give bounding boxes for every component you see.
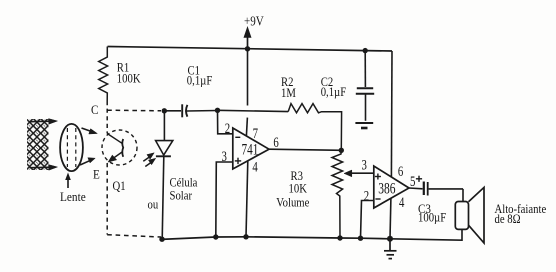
junction dot ground node on rail	[387, 236, 393, 242]
svg-text:ou: ou	[148, 199, 159, 212]
svg-text:1M: 1M	[281, 88, 296, 101]
svg-text:5: 5	[410, 173, 415, 189]
wire U1 pin7 to +9V (with crossing gap)	[247, 49, 249, 106]
wire U2 output pin5	[409, 187, 423, 190]
svg-text:2: 2	[225, 120, 230, 136]
svg-text:2: 2	[364, 188, 369, 204]
junction dot solar cell on rail	[159, 237, 164, 242]
capacitor C1	[164, 104, 217, 117]
light arrow lens to Q1 top	[82, 128, 98, 134]
ground symbol main	[384, 239, 397, 259]
svg-text:100µF: 100µF	[418, 212, 446, 225]
light arrow into solar cell lower	[145, 158, 155, 166]
wire U1 pin2 drop	[218, 110, 233, 134]
wire dashed collector (node C) vertical	[106, 101, 108, 134]
svg-text:6: 6	[273, 135, 279, 151]
wire U1 pin3 to ground rail	[216, 162, 233, 237]
light arrow bottom into lens	[30, 165, 58, 171]
transistor Q1 (photo-transistor in dashed circle)	[102, 130, 137, 165]
svg-text:4: 4	[399, 194, 405, 210]
C3 polarity + mark	[416, 176, 422, 182]
junction dot U1 pin2 node	[215, 108, 220, 113]
svg-text:386: 386	[378, 181, 395, 198]
svg-text:R3: R3	[291, 171, 304, 184]
svg-text:3: 3	[362, 157, 367, 173]
svg-text:100K: 100K	[117, 73, 141, 86]
svg-text:3: 3	[222, 148, 227, 164]
wire U1 pin4 to ground rail	[246, 161, 248, 237]
svg-text:6: 6	[398, 164, 404, 180]
op-amp U2 386	[374, 166, 409, 208]
svg-text:0,1µF: 0,1µF	[321, 86, 346, 99]
wire bottom ground rail	[161, 237, 390, 240]
capacitor C3	[424, 182, 463, 196]
light source hatched box	[27, 119, 49, 170]
ground under C2	[355, 123, 373, 128]
junction dot U1 output node	[339, 148, 344, 153]
light arrow lens to Q1 bottom	[80, 158, 95, 165]
wire pin2 node to R2	[218, 110, 289, 111]
svg-text:Lente: Lente	[60, 189, 86, 204]
op-amp U1 741	[233, 128, 269, 169]
junction dot C2 on top rail	[363, 48, 368, 53]
wire U2 pin2 to ground rail	[361, 201, 374, 239]
svg-text:Volume: Volume	[276, 197, 309, 210]
solar cell D1 (Célula Solar)	[156, 111, 173, 240]
junction dot +9V on top rail	[245, 46, 250, 51]
wire dashed node C to C1/solar junction	[107, 109, 161, 112]
wire U2 pin4 to ground rail	[389, 198, 392, 238]
speaker LS1	[455, 187, 484, 243]
R3 wiper arrow	[344, 170, 374, 177]
junction dot U1 pin4 on rail	[243, 234, 248, 239]
wire dashed bottom-left return	[107, 235, 161, 237]
lens (Lente)	[60, 124, 83, 171]
wire top +9V supply rail	[108, 47, 393, 52]
junction dot C1/solar-cell node	[162, 108, 167, 113]
label Lente with arrow	[60, 173, 86, 205]
resistor R2	[288, 104, 341, 151]
wire U1 output pin6	[269, 149, 341, 150]
svg-text:741: 741	[242, 140, 259, 157]
svg-text:0,1µF: 0,1µF	[187, 75, 212, 88]
svg-text:C: C	[91, 102, 98, 117]
junction dot U1 pin3 on rail	[213, 234, 218, 239]
svg-text:+9V: +9V	[244, 13, 264, 28]
svg-text:7: 7	[253, 125, 259, 141]
svg-text:4: 4	[252, 159, 258, 175]
svg-text:Solar: Solar	[170, 190, 193, 203]
svg-text:Q1: Q1	[113, 181, 126, 194]
resistor R1	[99, 47, 108, 102]
svg-text:E: E	[93, 167, 100, 182]
wire speaker return to ground rail	[390, 229, 462, 240]
wire dashed emitter (node E) vertical	[106, 163, 108, 235]
junction dot R3 on rail	[337, 235, 342, 240]
junction dot U2 pin2 on rail	[358, 236, 363, 241]
light arrow top into lens	[30, 119, 58, 125]
potentiometer R3	[332, 150, 343, 238]
light arrow into solar cell upper	[143, 153, 154, 161]
svg-text:Célula: Célula	[170, 177, 198, 190]
wire C3 to speaker	[462, 189, 464, 202]
capacitor C2	[356, 51, 374, 121]
+9V supply arrow	[244, 28, 251, 49]
svg-text:10K: 10K	[289, 183, 308, 196]
wire U2 pin6 to +9V rail	[390, 51, 393, 177]
svg-text:de 8Ω: de 8Ω	[495, 212, 521, 226]
